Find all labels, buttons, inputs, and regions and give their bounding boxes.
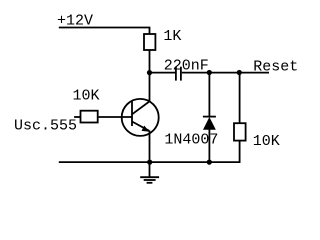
wire node B to diode — [208, 73, 210, 117]
resistor R1 1K — [144, 34, 155, 50]
node junction E — [147, 160, 152, 165]
svg-text:Reset: Reset — [253, 58, 298, 75]
node junction A — [147, 70, 152, 75]
svg-text:10K: 10K — [73, 88, 100, 105]
wire node C to resistor R3 — [239, 73, 241, 124]
wire base — [99, 116, 132, 118]
resistor R3 10K — [234, 123, 246, 140]
wire Usc.555 to R2 — [74, 116, 80, 118]
node junction C — [237, 70, 242, 75]
wire emitter to bottom rail — [149, 131, 151, 163]
diode D1 1N4007 — [203, 116, 216, 118]
ground — [149, 162, 151, 177]
wire 1K bottom to collector — [149, 50, 151, 102]
wire diode to bottom rail — [208, 130, 210, 163]
wire top rail — [59, 28, 150, 35]
wire R3 bottom to rail — [59, 141, 240, 163]
svg-text:1N4007: 1N4007 — [164, 132, 218, 149]
wire capacitor to Reset — [182, 72, 269, 74]
node junction D — [207, 160, 212, 165]
capacitor C1 220nF — [175, 67, 177, 81]
transistor Q1 — [122, 99, 159, 136]
node junction B — [207, 70, 212, 75]
svg-text:10K: 10K — [253, 133, 280, 150]
svg-text:Usc.555: Usc.555 — [14, 117, 77, 134]
wire node A to capacitor — [150, 72, 176, 74]
svg-text:1K: 1K — [163, 28, 181, 45]
resistor R2 10K — [81, 111, 98, 123]
